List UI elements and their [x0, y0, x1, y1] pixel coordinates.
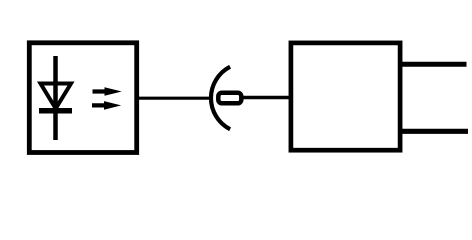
fiber / lens element (rounded rectangle)	[218, 93, 241, 104]
anode/cathode vertical lead	[53, 56, 58, 140]
output wire (top)	[400, 62, 467, 67]
LED (light-emitting diode)	[39, 56, 72, 140]
receiver box	[291, 43, 400, 150]
light emission arrow (upper)	[93, 87, 122, 96]
light emission arrow (lower)	[92, 101, 121, 110]
wire: coupling to receiver box	[242, 96, 291, 100]
diode triangle	[41, 84, 72, 109]
cathode bar	[39, 108, 72, 114]
output wire (bottom)	[400, 129, 468, 134]
wire: LED box to optical coupling	[135, 97, 210, 100]
optical coupling arc	[211, 67, 230, 129]
LED transmitter box	[29, 43, 136, 153]
